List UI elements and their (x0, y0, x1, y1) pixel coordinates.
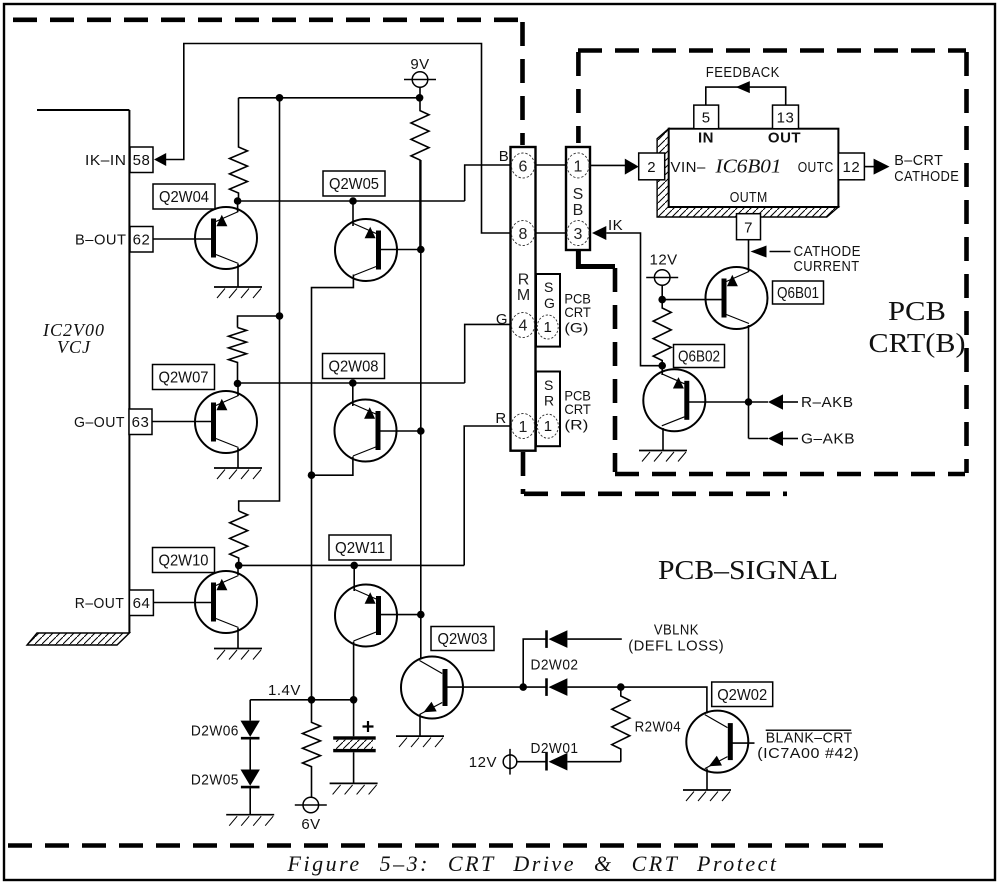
wire pin6 to SB1 (536, 164, 567, 166)
capacitor C hatch band (336, 740, 373, 749)
Q2W02 emitter wire (706, 769, 708, 791)
transistor Q6B02 (643, 369, 705, 431)
svg-text:(IC7A00 #42): (IC7A00 #42) (757, 745, 859, 762)
diode D2W05 (241, 770, 260, 788)
Q2W07 emitter wire (237, 448, 239, 468)
svg-text:6V: 6V (301, 816, 320, 833)
bias vertical 9V resistor chain down (420, 160, 422, 659)
node dot G branch (276, 312, 284, 320)
pin 12 box (838, 153, 864, 180)
PCB CRT(B) boundary left lower dashed (613, 268, 618, 472)
Q2W04 label box (153, 184, 215, 209)
svg-text:58: 58 (133, 152, 151, 169)
Q2W05 collector wire (352, 201, 354, 226)
diode D2W06 (241, 721, 260, 739)
IC2V00 block right edge (128, 110, 130, 633)
Q6B02 label box (674, 345, 725, 368)
wire capacitor to ground (353, 752, 355, 783)
Q2W04 emitter wire (237, 264, 239, 287)
svg-text:3: 3 (574, 226, 583, 243)
svg-text:(R): (R) (564, 417, 588, 433)
Q2W02 base stub (732, 742, 755, 744)
svg-text:G–AKB: G–AKB (801, 431, 855, 448)
node dot Q2W05 base (417, 246, 425, 254)
wire node G collectors (238, 382, 465, 384)
9V rail horizontal (239, 97, 421, 99)
Q2W08 collector wire (352, 383, 354, 406)
ground Q2W04 (214, 287, 262, 298)
svg-text:IK–IN: IK–IN (85, 152, 127, 169)
svg-text:1: 1 (574, 158, 583, 175)
svg-text:Q6B02: Q6B02 (678, 349, 720, 366)
svg-text:Q2W08: Q2W08 (329, 359, 379, 376)
node dot Q6B02 collector (658, 362, 666, 370)
node dot Q2W04 collector (234, 197, 242, 205)
G-AKB arrow (768, 431, 783, 446)
svg-text:1: 1 (544, 319, 552, 336)
feedback arrow (736, 81, 750, 93)
Q2W03 emitter wire (419, 715, 421, 737)
capacitor C plus sign (363, 721, 374, 732)
svg-text:BLANK–CRT: BLANK–CRT (766, 729, 853, 746)
svg-text:8: 8 (519, 226, 528, 243)
Q2W04 collector wire (237, 201, 239, 212)
ground Q2W07 (214, 468, 262, 479)
wire 12V to node (661, 285, 663, 299)
IC6B01 shadow (657, 129, 838, 217)
Q6B01 label box (773, 281, 824, 304)
pin 62 box (130, 227, 153, 253)
svg-text:63: 63 (132, 414, 150, 431)
node dot Q2W10 collector (235, 562, 243, 570)
svg-text:2: 2 (647, 159, 656, 176)
transistor Q2W07 (195, 391, 257, 453)
svg-text:R–OUT: R–OUT (75, 595, 125, 612)
wire IK-IN to pin 8 of connector (166, 44, 511, 234)
svg-text:IN: IN (698, 130, 714, 147)
svg-text:IK: IK (608, 217, 623, 234)
svg-text:IC6B01: IC6B01 (714, 157, 781, 178)
diode D2W01 (547, 753, 568, 771)
svg-text:VCJ: VCJ (57, 337, 91, 357)
svg-text:G: G (496, 311, 508, 328)
node dot 1.4V capacitor (350, 696, 358, 704)
Q2W11 base wire (381, 614, 421, 616)
arrow B-CRT (874, 159, 890, 175)
wire D2W01 row (517, 761, 547, 763)
Q2W05 base wire to 9V resistor node (381, 249, 421, 251)
svg-text:(DEFL LOSS): (DEFL LOSS) (628, 638, 724, 655)
svg-text:R: R (495, 410, 506, 427)
resistor R2W04 (612, 687, 630, 762)
pin 6 circle (511, 153, 534, 178)
wire node R collectors (239, 564, 465, 566)
R-AKB arrow (768, 394, 783, 409)
Q2W03 base wire (447, 686, 547, 688)
transistor Q2W10 (195, 571, 257, 633)
wire 9V down to rail (419, 87, 421, 98)
BLANK-CRT label with overline (766, 729, 852, 731)
PCB-SIGNAL boundary bottom dashed (524, 491, 787, 496)
svg-text:Q2W05: Q2W05 (329, 176, 379, 193)
wire VBLNK diode right (567, 638, 621, 640)
svg-text:OUT: OUT (768, 130, 801, 147)
connector column B/RM box (511, 147, 536, 451)
svg-text:CRT(B): CRT(B) (869, 328, 966, 358)
bottom caption separator dashed (8, 843, 888, 848)
svg-text:OUTM: OUTM (730, 189, 768, 206)
svg-text:B–OUT: B–OUT (75, 232, 127, 249)
svg-text:4: 4 (519, 317, 528, 334)
Q2W07 collector wire (237, 384, 239, 397)
Q2W11 emitter wire (353, 642, 355, 700)
node dot VBLNK branch (519, 683, 527, 691)
node dot Q2W11 collector (350, 562, 358, 570)
pin 63 box (129, 409, 152, 435)
wire up to pin 6 (465, 165, 511, 201)
Q6B01 emitter wire down (748, 325, 750, 439)
svg-text:13: 13 (777, 110, 795, 127)
svg-text:B–CRT: B–CRT (894, 152, 943, 169)
svg-text:CATHODE: CATHODE (894, 168, 959, 185)
svg-text:VBLNK: VBLNK (654, 622, 699, 639)
connector SB box (566, 147, 590, 250)
VBLNK branch wire (523, 639, 546, 687)
CATHODE CURRENT arrow (751, 246, 767, 258)
svg-text:5: 5 (702, 110, 711, 127)
svg-text:R: R (544, 393, 554, 409)
svg-text:PCB–SIGNAL: PCB–SIGNAL (658, 555, 838, 585)
wire D2W05 to ground (249, 788, 251, 815)
IK arrow into SB3 (592, 226, 606, 240)
svg-text:CRT: CRT (564, 401, 591, 417)
diode D2W02 (VBLNK) (547, 630, 568, 648)
wire pin8 to SB3 (536, 232, 567, 234)
node dot emitter rail (308, 471, 316, 479)
resistor 12V to Q6B02 (653, 300, 671, 366)
svg-text:G–OUT: G–OUT (74, 414, 125, 431)
stub to G pull-up resistor (238, 316, 280, 328)
6V supply (295, 797, 327, 813)
feedback wire (706, 87, 786, 105)
wire D2W06 to D2W05 (249, 739, 251, 770)
transistor Q2W11 (335, 585, 397, 647)
transistor Q2W05 (335, 219, 397, 281)
Q6B02 emitter wire (662, 428, 664, 451)
ground D2W05 (226, 815, 274, 826)
Q2W07 label box (153, 365, 215, 390)
wire pin12 out (864, 166, 874, 168)
PCB-SIGNAL boundary right dashed lower (521, 452, 526, 494)
diode D2W02 (547, 678, 568, 696)
wire pin7 to Q6B01 (748, 240, 750, 272)
resistor G pull-up (229, 328, 247, 384)
IK wire (606, 233, 662, 366)
svg-text:D2W06: D2W06 (191, 723, 239, 740)
IC2V00 block hatched bottom bar (27, 633, 129, 645)
Q2W05 emitter wire down-left (312, 275, 354, 700)
svg-text:7: 7 (744, 220, 753, 237)
wire 64 to Q2W10 base (153, 602, 211, 604)
PCB CRT(B) boundary bottom dashed (615, 472, 965, 477)
capacitor C top plate (333, 736, 376, 739)
ground Q2W03 (396, 736, 444, 747)
IC2V00 block top edge (37, 109, 129, 111)
svg-text:CRT: CRT (564, 304, 591, 320)
svg-text:Q2W10: Q2W10 (159, 553, 209, 570)
svg-text:D2W05: D2W05 (191, 772, 239, 789)
wire up to pin 4 (465, 324, 511, 383)
svg-text:12: 12 (843, 159, 861, 176)
svg-text:1: 1 (519, 419, 528, 436)
Q2W10 collector wire (237, 565, 239, 575)
svg-text:S: S (544, 279, 553, 295)
Q2W10 label box (153, 548, 215, 573)
wire D2W02 to Q2W02 (567, 687, 707, 713)
svg-text:6: 6 (519, 159, 528, 176)
svg-text:62: 62 (133, 232, 151, 249)
Q2W11 label box (329, 535, 391, 560)
PCB CRT(B) boundary left upper dashed (576, 52, 581, 143)
node dot Q2W05 collector (349, 197, 357, 205)
svg-text:9V: 9V (410, 56, 429, 73)
9V rail left vertical down (239, 98, 280, 511)
svg-text:R2W04: R2W04 (635, 719, 682, 736)
svg-text:D2W02: D2W02 (531, 657, 579, 674)
wire 62 to Q2W04 base (153, 238, 212, 240)
svg-text:1: 1 (544, 418, 552, 435)
PCB-SIGNAL boundary right dashed upper (520, 22, 525, 145)
resistor B pull-up (230, 98, 248, 201)
resistor to 6V (303, 700, 321, 797)
pin 13 box (773, 105, 799, 129)
node dot R-AKB (745, 398, 753, 406)
ground Q6B02 (639, 451, 687, 462)
transistor Q2W02 (686, 711, 748, 773)
connector SG box (536, 274, 560, 347)
PCB-SIGNAL boundary top dashed (13, 17, 524, 22)
Q6B02 collector wire (661, 366, 663, 375)
resistor to Q2W05 base (411, 98, 429, 250)
G-AKB wire (749, 438, 769, 440)
PCB CRT(B) boundary top dashed (578, 48, 966, 53)
Q6B02 base wire (689, 401, 768, 403)
node dot Q2W07 collector (234, 380, 242, 388)
op-amp IC6B01 body (669, 129, 839, 207)
wire to D2W06 (249, 700, 251, 721)
svg-text:G: G (544, 295, 555, 311)
pin 58 box (130, 147, 153, 173)
pin 8 circle (511, 221, 534, 246)
svg-text:Figure 5–3: CRT Drive & CRT Pr: Figure 5–3: CRT Drive & CRT Protect (287, 851, 779, 876)
1.4V rail (250, 699, 353, 701)
arrow into pin 58 (154, 153, 166, 166)
node dot R2W04 (617, 683, 625, 691)
svg-text:1.4V: 1.4V (268, 682, 301, 699)
svg-text:S: S (544, 377, 553, 393)
svg-text:D2W01: D2W01 (531, 740, 579, 757)
node dot 9V rail left branch (276, 94, 284, 102)
pin 1 circle (R) (511, 414, 534, 439)
svg-text:Q6B01: Q6B01 (777, 285, 819, 302)
Q2W08 emitter wire (312, 457, 353, 476)
node dot Q2W08 collector (349, 379, 357, 387)
svg-text:12V: 12V (469, 754, 497, 771)
wire 1.4V to capacitor (353, 700, 355, 737)
wire 63 to Q2W07 base (152, 421, 212, 423)
node dot 1.4V resistor (308, 696, 316, 704)
svg-text:M: M (517, 287, 530, 304)
svg-text:R–AKB: R–AKB (801, 394, 854, 411)
Q2W05 label box (323, 171, 385, 196)
Q2W08 base wire (380, 430, 421, 432)
svg-text:Q2W02: Q2W02 (717, 687, 767, 704)
svg-text:S: S (573, 186, 584, 203)
pin 5 box (694, 105, 719, 129)
svg-text:FEEDBACK: FEEDBACK (706, 64, 780, 81)
svg-text:Q2W04: Q2W04 (159, 189, 209, 206)
transistor Q2W08 (335, 400, 397, 462)
svg-text:Q2W07: Q2W07 (159, 370, 209, 387)
ground Q2W02 (683, 790, 731, 801)
node dot Q2W08 base (417, 427, 425, 435)
Q2W11 collector wire (353, 565, 355, 591)
resistor R pull-up (230, 511, 248, 565)
SB pin 1 (567, 153, 589, 178)
svg-text:B: B (573, 202, 584, 219)
svg-text:B: B (499, 148, 510, 165)
Q2W03 label box (431, 627, 494, 651)
pin 64 box (129, 590, 153, 616)
svg-text:R: R (518, 272, 530, 289)
connector SR box (536, 372, 560, 447)
node dot Q2W11 base (417, 611, 425, 619)
SB pin 3 (567, 221, 589, 246)
transistor Q2W03 (401, 657, 463, 719)
svg-text:Q2W03: Q2W03 (438, 631, 488, 648)
arrow into pin 2 (625, 159, 639, 175)
svg-text:VIN–: VIN– (671, 159, 707, 176)
svg-text:PCB: PCB (888, 296, 946, 326)
wire SB1 to IC pin2 (590, 164, 625, 166)
wire to Q6B01 base (662, 299, 722, 301)
ground Q2W10 (214, 649, 262, 660)
node dot Q6B01 base (658, 296, 666, 304)
node dot 9V under source (416, 94, 424, 102)
pin 2 box (639, 153, 665, 180)
transistor Q2W04 (195, 207, 257, 269)
svg-text:12V: 12V (650, 252, 678, 269)
wire node B collectors (238, 200, 465, 202)
PCB CRT(B) boundary right dashed (964, 52, 969, 473)
svg-text:CURRENT: CURRENT (794, 258, 860, 275)
svg-text:(G): (G) (564, 320, 588, 336)
thick link SB connector to CRT(B) boundary (578, 250, 615, 267)
wire up to pin 1 (464, 426, 510, 565)
pin 4 circle (511, 313, 534, 338)
svg-text:64: 64 (133, 595, 151, 612)
capacitor C bottom plate (333, 749, 376, 752)
Q2W10 emitter wire (237, 628, 239, 649)
transistor Q6B01 (706, 267, 768, 329)
Q2W08 label box (323, 354, 385, 379)
wire D2W01 to R2W04 (567, 761, 620, 763)
12V source (D2W01) (503, 755, 517, 769)
svg-text:Q2W11: Q2W11 (335, 540, 385, 557)
pin 7 box (737, 214, 761, 240)
Q2W02 label box (712, 682, 773, 707)
svg-text:OUTC: OUTC (798, 159, 834, 176)
ground capacitor (330, 783, 378, 794)
